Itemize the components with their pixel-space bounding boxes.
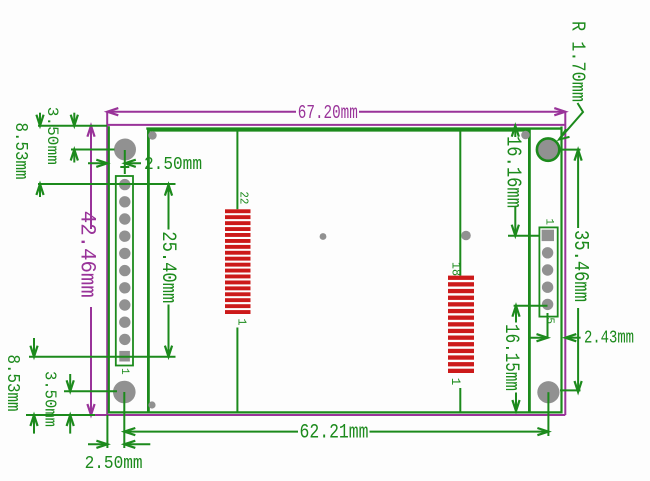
- connector J1 pad 4 (round): [119, 299, 130, 310]
- mounting hole bottom-left: [113, 381, 136, 404]
- svg-text:22: 22: [237, 191, 250, 204]
- wire: right extension line (purple vertical at board right edge): [564, 112, 566, 415]
- dimension 25.40mm line: [168, 185, 170, 230]
- connector FPC1 22-pin pad stack (red): [225, 209, 251, 314]
- mounting hole top-right (with green ring, R 1.70mm): [537, 138, 559, 160]
- wire: extension line at J2 pin 5 center: [514, 305, 548, 307]
- wire: bottom extension line (purple horizontal at board bottom edge): [91, 414, 565, 416]
- via top-left inner corner: [148, 131, 156, 139]
- connector J2 pad 1 (square): [542, 230, 554, 241]
- svg-text:R 1.70mm: R 1.70mm: [566, 21, 588, 102]
- connector FPC2 18-pin pad stack (red): [448, 276, 474, 373]
- svg-text:3.50mm: 3.50mm: [43, 107, 61, 165]
- svg-text:62.21mm: 62.21mm: [300, 421, 369, 444]
- board outline (green PCB edge): [109, 126, 562, 412]
- svg-text:1: 1: [542, 218, 554, 225]
- svg-text:1: 1: [448, 378, 462, 386]
- connector J1 pad 3 (round): [119, 317, 130, 328]
- dimension 35.46mm line: [577, 150, 579, 228]
- connector J2 pad 4 (round): [542, 282, 553, 293]
- svg-text:8.53mm: 8.53mm: [10, 123, 30, 180]
- svg-text:35.46mm: 35.46mm: [568, 230, 591, 302]
- svg-text:16.15mm: 16.15mm: [499, 324, 522, 391]
- svg-text:8.53mm: 8.53mm: [2, 355, 22, 412]
- svg-text:42.46mm: 42.46mm: [74, 211, 99, 298]
- connector J2 pad 3 (round): [542, 264, 553, 275]
- wire: net line from board top edge to 18-pin FPC connector: [459, 129, 461, 276]
- connector J1 pad 2 (round): [119, 334, 130, 345]
- connector J2 pad 2 (round): [542, 247, 553, 258]
- wire: hole center marker line (top-left): [124, 150, 126, 174]
- connector J2 outline (right 5-pin header): [539, 227, 557, 316]
- board top edge (green): [146, 127, 561, 129]
- dimension 2.50mm (bottom) arrows: [88, 443, 107, 445]
- dimension 2.50mm (top) arrows: [88, 162, 107, 164]
- wire: extension line at board top edge (left, green): [38, 125, 107, 127]
- dimension 62.21mm line: [124, 431, 298, 433]
- wire: J2 pin 5 extension down: [547, 313, 549, 338]
- connector J1 pad 11 (round): [119, 179, 130, 190]
- via top-right inner corner: [521, 131, 530, 140]
- wire: net line from FPC1 pin1 to board bottom edge: [236, 328, 238, 413]
- dimension 3.50mm arrows (bottom): [69, 374, 71, 391]
- wire: extension line at board bottom (left, green): [26, 414, 95, 416]
- connector J1 pad 7 (round): [119, 248, 130, 259]
- wire: extension line at bottom-right hole center: [560, 389, 581, 391]
- wire: leader line for R 1.70mm: [559, 103, 583, 140]
- dimension 2.43mm arrows: [530, 337, 548, 339]
- connector J1 pad 5 (round): [119, 282, 130, 293]
- svg-text:2.50mm: 2.50mm: [144, 155, 202, 175]
- mounting hole bottom-right: [537, 381, 559, 403]
- wire: top extension line (purple horizontal at board top edge): [107, 124, 565, 126]
- wire: extension line at J1 pin 1 (square pad) center: [29, 356, 176, 358]
- via center of board: [320, 233, 327, 240]
- connector J1 pad 9 (round): [119, 213, 130, 224]
- connector J2 pad 5 (round): [542, 299, 553, 310]
- display area rectangle: [148, 130, 529, 412]
- svg-text:2.43mm: 2.43mm: [584, 328, 634, 349]
- dimension 3.50mm arrows (top): [73, 113, 75, 126]
- wire: 67.20mm dimension line (purple, top): [107, 111, 296, 113]
- svg-text:16.16mm: 16.16mm: [501, 136, 524, 208]
- svg-text:1: 1: [118, 368, 130, 375]
- svg-text:1: 1: [234, 318, 248, 325]
- wire: extension line at J2 pin 1 center: [508, 235, 539, 237]
- connector J1 outline (left 11-pin header): [116, 176, 133, 366]
- wire: extension line at top-left hole center: [71, 149, 115, 151]
- svg-text:18: 18: [449, 262, 463, 276]
- wire: extension line at top-right hole center: [559, 149, 581, 151]
- dimension 16.16mm line: [514, 126, 516, 137]
- mounting hole top-left: [114, 139, 136, 161]
- dimension 8.53mm arrows (top): [39, 113, 41, 126]
- via right-center of board: [461, 231, 471, 241]
- wire: extension line at J1 pin 11 center: [38, 183, 176, 185]
- wire: hole center extension down (bottom-left): [123, 392, 125, 448]
- wire: left extension line (purple vertical at board left edge): [106, 112, 108, 415]
- connector J1 pad 10 (round): [119, 196, 130, 207]
- svg-text:25.40mm: 25.40mm: [156, 231, 179, 303]
- connector J1 pad 1 (square): [119, 351, 130, 362]
- svg-text:2.50mm: 2.50mm: [85, 453, 143, 474]
- wire: bottom-right hole center extension down: [547, 392, 549, 436]
- svg-text:3.50mm: 3.50mm: [40, 371, 59, 427]
- svg-text:5: 5: [543, 317, 555, 324]
- connector J1 pad 6 (round): [119, 265, 130, 276]
- wire: net line from FPC2 pin1 to board bottom edge: [459, 388, 461, 412]
- wire: 42.46mm dimension line (purple, left): [90, 126, 92, 229]
- wire: extension line at bottom-left hole center: [64, 390, 117, 392]
- dimension 8.53mm arrows (bottom): [33, 338, 35, 357]
- wire: board edge extension down (bottom-left): [106, 415, 108, 448]
- dimension 16.15mm line: [515, 306, 517, 323]
- via bottom-left inner corner: [148, 401, 155, 408]
- svg-text:67.20mm: 67.20mm: [298, 102, 358, 124]
- connector J1 pad 8 (round): [119, 231, 130, 242]
- wire: net line from display top to 22-pin FPC connector: [236, 130, 238, 209]
